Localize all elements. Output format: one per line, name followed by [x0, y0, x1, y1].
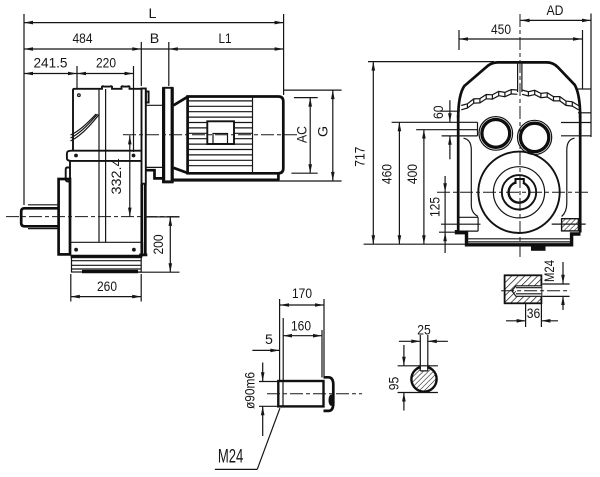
svg-text:717: 717 — [353, 147, 369, 167]
svg-text:400: 400 — [405, 164, 421, 184]
svg-text:95: 95 — [387, 377, 403, 391]
svg-text:5: 5 — [265, 332, 273, 348]
svg-text:160: 160 — [291, 319, 311, 335]
svg-text:M24: M24 — [542, 260, 558, 282]
svg-text:AD: AD — [547, 3, 564, 19]
svg-text:25: 25 — [417, 323, 431, 339]
svg-text:AC: AC — [295, 126, 311, 143]
svg-text:450: 450 — [491, 22, 511, 38]
svg-text:B: B — [150, 31, 159, 47]
svg-text:260: 260 — [97, 279, 117, 295]
svg-text:125: 125 — [428, 197, 444, 217]
svg-text:60: 60 — [431, 105, 447, 119]
svg-text:170: 170 — [292, 286, 312, 302]
svg-text:L: L — [149, 6, 157, 22]
svg-text:G: G — [316, 126, 332, 137]
svg-text:L1: L1 — [219, 31, 232, 47]
svg-text:ø90m6: ø90m6 — [243, 372, 259, 409]
svg-text:M24: M24 — [218, 446, 244, 468]
svg-text:484: 484 — [73, 31, 93, 47]
svg-text:36: 36 — [527, 306, 541, 322]
svg-text:460: 460 — [380, 164, 396, 184]
svg-text:332.4: 332.4 — [109, 158, 125, 194]
svg-text:220: 220 — [96, 56, 116, 72]
svg-text:241.5: 241.5 — [34, 56, 68, 72]
svg-text:200: 200 — [151, 234, 167, 254]
